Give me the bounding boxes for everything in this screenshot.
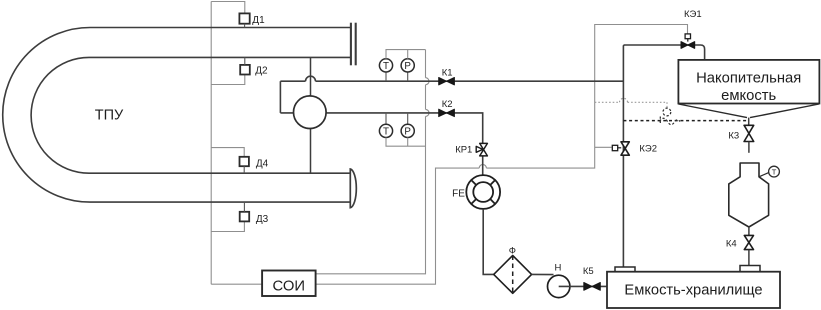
detector Д1 — [239, 13, 249, 23]
valve К2 — [439, 109, 455, 116]
4-way valve circle — [294, 96, 327, 129]
dashed drain line to К3 — [623, 120, 746, 122]
valve К4 — [744, 235, 753, 249]
svg-text:КР1: КР1 — [455, 145, 472, 156]
thermometer Т (lower) — [379, 113, 392, 138]
pipe К4 to storage tank — [748, 250, 750, 266]
solenoid valve КЭ1 — [681, 42, 695, 49]
pump Н — [548, 275, 570, 297]
К2 process line — [280, 113, 482, 176]
pipe from top pipe down to 4-way valve — [310, 57, 312, 96]
pipe filter to pump — [532, 273, 554, 275]
svg-text:К5: К5 — [583, 266, 594, 277]
pressure gauge Р (lower) — [401, 113, 414, 138]
signal bus vertical (left, to СОИ) — [211, 2, 262, 285]
flow element FE — [466, 175, 500, 209]
pipe К3 outlet stub — [748, 142, 750, 153]
pipe from 4-way valve down to bottom pipe — [310, 129, 312, 174]
svg-text:КЭ1: КЭ1 — [684, 9, 702, 20]
signal wire B (СОИ to КЭ1/КЭ2) with hop — [316, 25, 688, 285]
valve К3 — [744, 125, 754, 141]
signal bracket upper Т/Р — [386, 50, 426, 59]
svg-text:Емкость-хранилище: Емкость-хранилище — [624, 282, 762, 298]
main riser pipe and pipe to Накопительная емкость via КЭ1 — [623, 45, 704, 267]
svg-text:Д1: Д1 — [252, 15, 265, 26]
svg-text:КЭ2: КЭ2 — [639, 144, 657, 155]
СОИ block — [262, 271, 316, 297]
svg-text:Т: Т — [383, 61, 389, 72]
bottom pipe dished end cap — [350, 169, 356, 208]
ТПУ prover loop inner pipe wall — [31, 57, 351, 173]
pipe FE to filter — [483, 209, 494, 275]
svg-text:К2: К2 — [442, 99, 453, 110]
svg-text:К4: К4 — [726, 239, 737, 250]
filter Ф — [494, 256, 532, 294]
svg-text:К1: К1 — [442, 67, 453, 78]
svg-text:Накопительная: Накопительная — [696, 70, 801, 86]
Емкость-хранилище tank — [607, 272, 780, 308]
svg-text:Д3: Д3 — [256, 214, 269, 225]
svg-text:ТПУ: ТПУ — [95, 108, 124, 124]
wire Д1 to bus — [211, 2, 245, 14]
detector Д2 — [240, 65, 250, 75]
svg-text:Р: Р — [404, 126, 411, 137]
svg-text:Т: Т — [383, 126, 389, 137]
Накопительная емкость tank — [678, 60, 819, 104]
svg-text:К3: К3 — [728, 130, 739, 141]
pressure gauge Р (upper) — [401, 59, 414, 81]
thermometer Т on vessel — [759, 172, 769, 176]
signal bracket lower Т/Р — [386, 138, 426, 147]
manifold left elbow — [279, 81, 281, 113]
svg-text:Д4: Д4 — [256, 159, 269, 170]
svg-text:Д2: Д2 — [255, 66, 268, 77]
svg-text:Т: Т — [772, 168, 777, 177]
detector Д3 — [240, 212, 250, 222]
thermometer Т (upper) — [379, 59, 392, 81]
correction scribble — [660, 108, 681, 125]
valve К5 — [584, 283, 601, 291]
detector Д4 — [240, 157, 249, 166]
svg-text:СОИ: СОИ — [273, 278, 306, 294]
КР1 actuator flag — [476, 146, 483, 152]
pipe tank to К3 — [748, 118, 750, 126]
ТПУ prover loop outer pipe wall — [3, 28, 351, 203]
svg-text:Ф: Ф — [509, 245, 516, 256]
signal wire A (Т/Р brackets to СОИ) with hops — [316, 50, 429, 274]
tank hopper bottom — [678, 104, 819, 118]
solenoid valve КЭ2 — [621, 142, 629, 155]
wire Д3 to bus — [211, 221, 244, 231]
top pipe end flange — [351, 23, 356, 66]
right nozzle — [740, 266, 760, 272]
wire Д4 to bus — [211, 148, 244, 157]
measuring vessel — [729, 163, 769, 227]
valve К1 — [439, 78, 455, 85]
left nozzle — [615, 267, 635, 272]
svg-text:Р: Р — [404, 61, 411, 72]
control valve КР1 — [480, 143, 488, 156]
wire СОИ left — [211, 283, 262, 285]
wire hop over vertical (К1 line hops) — [280, 76, 623, 81]
pipe vessel to К4 — [748, 227, 750, 235]
svg-text:FE: FE — [452, 188, 465, 199]
svg-text:емкость: емкость — [721, 88, 776, 104]
pipe pump to tank — [559, 285, 607, 287]
svg-text:Н: Н — [555, 262, 562, 273]
wire Д2 to bus — [211, 74, 245, 85]
dotted signal line (grey) with hop — [595, 98, 667, 107]
